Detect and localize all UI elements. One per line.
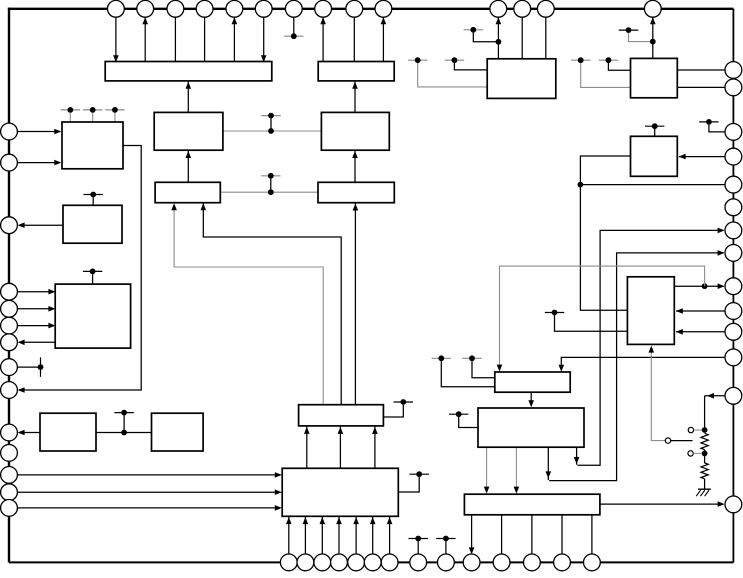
block L2 <box>63 205 122 243</box>
wire pin12 to block E <box>521 17 523 59</box>
wire pin1 to block A <box>115 17 117 61</box>
wire block N to block M <box>187 150 189 182</box>
arrow into pin11 <box>496 17 502 24</box>
pin right 9 <box>725 278 742 295</box>
arrow into block M bottom <box>186 151 192 158</box>
wire block AB to bottom pin10 <box>471 515 473 553</box>
test point TP2 left of pin11 stub <box>464 27 483 33</box>
pin bottom 3 <box>314 554 331 571</box>
arrow into block T in2 <box>275 489 282 495</box>
wire left pin8 to test point TP16 <box>17 366 40 368</box>
wire right pin13 to divider <box>705 395 725 397</box>
wire pin3 to block A <box>174 17 176 61</box>
wire block V to block AB 1 (gray) <box>486 447 488 491</box>
IC boundary top edge <box>8 8 734 10</box>
wire TP26 to block V left <box>459 417 478 428</box>
block A <box>105 62 272 81</box>
wire block A to pin2 <box>144 17 146 61</box>
wire TP6 to block F input 2 <box>581 63 631 87</box>
wire block F to pin14 <box>652 17 654 58</box>
pin top 11 <box>490 0 507 17</box>
test point TP19 <box>410 471 429 477</box>
wire TP24 to block U in2 <box>441 361 495 387</box>
arrow into block T bottom 7 <box>387 517 393 524</box>
arrow into block P bottom <box>649 346 655 353</box>
pin bottom 10 <box>463 554 480 571</box>
pin top 4 <box>196 0 213 17</box>
wire R1 to R2 <box>704 450 706 463</box>
pin bottom 14 <box>584 554 601 571</box>
wire bottom pin1 to block T <box>288 516 290 554</box>
block L1 <box>62 122 123 169</box>
pin right 1 <box>725 62 742 79</box>
test point TP7 <box>599 57 618 63</box>
pin left 1 <box>1 123 18 140</box>
wire block F to right pin1 <box>677 69 725 71</box>
wire junction J1 to right pin5 <box>580 184 725 186</box>
arrow into block D bottom <box>352 151 358 158</box>
wire block AB to right pin14 <box>600 503 724 505</box>
pin right 11 <box>725 323 742 340</box>
wire block T to block S 2 <box>339 426 341 468</box>
block O <box>318 182 394 202</box>
pin left 14 <box>1 500 18 517</box>
wire TP23 to block P left <box>555 315 628 331</box>
pin bottom 9 <box>438 554 455 571</box>
arrow into block AB top 2 <box>514 487 520 494</box>
arrow toward divider corner <box>707 393 714 399</box>
wire pin4 to block A <box>204 17 206 61</box>
test point TP22 above G <box>645 123 664 129</box>
wire TP8 to right pin3 <box>709 125 725 132</box>
switch blade <box>671 440 693 442</box>
pin top 2 <box>137 0 154 17</box>
pin bottom 1 <box>280 554 297 571</box>
wire right pin10 to block P <box>676 310 725 312</box>
stub TP22 to block G <box>654 129 656 136</box>
block B <box>318 62 394 81</box>
arrow into left pin7 <box>18 340 25 346</box>
arrow into block G right <box>679 154 686 160</box>
pin left 6 <box>1 317 18 334</box>
block M <box>154 112 223 150</box>
test point TP14 above L2 <box>84 192 103 198</box>
wire left pin14 to block T <box>17 507 280 509</box>
pin bottom 6 <box>364 554 381 571</box>
wire block M to block A <box>187 81 189 113</box>
test point TP10 <box>261 173 280 179</box>
wire block U to block V <box>530 392 532 406</box>
wire TP4 to block E input 2 <box>418 63 488 87</box>
wire block L2 to left pin3 <box>19 224 63 226</box>
arrow into L3 in2 <box>48 306 55 312</box>
pin left 13 <box>1 484 18 501</box>
stub test point TP9 <box>270 118 272 131</box>
junction on M-D wire <box>268 128 274 134</box>
pin bottom 11 <box>493 554 510 571</box>
pin top 9 <box>346 0 363 17</box>
test point TP20 <box>409 536 428 542</box>
block U <box>495 372 570 392</box>
pin bottom 5 <box>348 554 365 571</box>
pin left 9 <box>1 382 18 399</box>
wire right pin4 to block G <box>679 156 725 158</box>
junction on Q-R wire <box>121 430 127 436</box>
wire pin13 to block E <box>545 17 547 59</box>
wire TP3 to pin14 net <box>629 33 653 42</box>
wire block E to pin11 <box>497 17 499 59</box>
arrow into block T bottom 4 <box>336 517 342 524</box>
stub TP14 to L2 <box>92 197 94 205</box>
arrow into block S bottom 2 <box>338 427 344 434</box>
pin top 7 <box>285 0 302 17</box>
test point TP1 below pin7 <box>284 33 303 39</box>
test point TP5 <box>445 57 464 63</box>
test point TP18 <box>394 399 413 405</box>
arrow into block L1 in2 <box>54 160 61 166</box>
wire block T to block S 3 <box>374 426 376 468</box>
test point TP12 above L1 <box>83 107 102 113</box>
IC boundary right edge <box>732 9 734 563</box>
resistor R2 <box>701 463 708 479</box>
wire block AB to bottom pin11 <box>501 515 503 554</box>
pin bottom 4 <box>331 554 348 571</box>
arrow into block V top <box>528 400 534 407</box>
arrow into block U top 2 <box>559 365 565 372</box>
wire left pin12 to block T <box>17 474 280 476</box>
stub TP13 to L1 <box>114 113 116 122</box>
wire block Q to block R <box>96 432 152 434</box>
wire right pin12 to block U <box>561 357 725 368</box>
wire right pin7 to block V path A <box>578 230 724 465</box>
arrow into block O bottom <box>353 204 359 211</box>
wire TP2 to pin11 net <box>473 33 498 42</box>
pin right 12 <box>725 349 742 366</box>
wire bottom pin3 to block T <box>321 516 323 554</box>
wire bottom pin7 to block T <box>389 516 391 554</box>
switch contact lower <box>688 451 693 456</box>
wire block U net to J2 (gray) <box>500 266 705 366</box>
resistor R1 <box>701 433 708 449</box>
wire block V down leg B <box>547 447 549 480</box>
arrow down on V leg B <box>546 471 552 478</box>
switch contact upper <box>688 427 693 432</box>
pin top 8 <box>315 0 332 17</box>
test point TP15 above L3 <box>83 269 102 275</box>
pin left 7 <box>1 334 18 351</box>
arrow into pin2 <box>142 17 148 24</box>
stub TP12 to L1 <box>92 113 94 122</box>
pin right 5 <box>725 176 742 193</box>
arrow into L3 in3 <box>48 323 55 329</box>
arrow into pin10 <box>381 17 387 24</box>
wire block L3 to left pin7 <box>19 341 55 343</box>
pin right 6 <box>725 199 742 216</box>
pin right 14 <box>725 496 742 513</box>
test point TP23 <box>545 310 564 316</box>
pin top 6 <box>255 0 272 17</box>
pin bottom 2 <box>297 554 314 571</box>
pin right 13 <box>725 387 742 404</box>
wire block A to pin5 <box>233 17 235 61</box>
arrow into block T bottom 1 <box>286 517 292 524</box>
pin bottom 8 <box>410 554 427 571</box>
wire left pin4 to block L3 <box>17 291 54 293</box>
pin top 3 <box>167 0 184 17</box>
pin right 3 <box>725 123 742 140</box>
block F <box>631 58 678 97</box>
arrow into block P right 1 <box>676 308 683 314</box>
pin right 8 <box>725 245 742 262</box>
wire TP25 to block U in1 <box>472 361 495 378</box>
arrow into pin8 <box>320 17 326 24</box>
arrow into L3 in1 <box>48 289 55 295</box>
wire right pin8 to block V path B <box>549 253 723 481</box>
block AB <box>464 494 600 515</box>
arrow into right pin7 <box>718 228 725 234</box>
switch common contact <box>665 438 670 443</box>
arrow into block A bottom <box>186 82 192 89</box>
test point TP13 above L1 <box>105 107 124 113</box>
block V <box>478 408 584 447</box>
arrow into block T in3 <box>275 505 282 511</box>
junction J3 divider top <box>702 427 708 433</box>
wire left pin6 to block L3 <box>17 325 54 327</box>
IC boundary bottom edge <box>9 561 733 563</box>
wire block O to block D <box>354 150 356 182</box>
wire contact upper to J3 <box>694 429 702 431</box>
wire block T to test point TP19 <box>398 477 419 492</box>
test point TP9 <box>261 113 280 119</box>
arrow into block T bottom 6 <box>370 517 376 524</box>
test point TP11 above L1 <box>61 107 80 113</box>
arrow into right pin9 <box>718 283 725 289</box>
pin top 10 <box>375 0 392 17</box>
junction on N-O wire <box>268 189 274 195</box>
wire block B to pin10 <box>382 17 384 61</box>
arrow into block T bottom 5 <box>353 517 359 524</box>
pin top 1 <box>108 0 125 17</box>
junction J4 divider mid <box>702 451 708 457</box>
wire block V to block AB 2 (gray) <box>515 447 517 491</box>
pin left 11 <box>1 445 18 462</box>
arrow into block N bottom left <box>171 203 177 210</box>
block P <box>627 277 674 345</box>
wire divider top leg <box>704 396 706 430</box>
arrow into bottom pin10 <box>469 547 475 554</box>
stub test point TP17 <box>123 415 125 432</box>
block T <box>282 468 398 516</box>
arrow into block T bottom 3 <box>320 517 326 524</box>
wire block AB to bottom pin13 <box>561 515 563 554</box>
pin right 10 <box>725 303 742 320</box>
arrow into block T in1 <box>275 472 282 478</box>
wire block V down leg A <box>576 447 578 465</box>
pin bottom 7 <box>381 554 398 571</box>
wire block P to switch pole (gray) <box>651 349 665 441</box>
junction J1 on G-P net <box>578 182 584 188</box>
IC boundary left edge <box>8 8 10 563</box>
wire pin6 to block A <box>263 17 265 61</box>
arrow into block P right 2 <box>676 329 683 335</box>
wire bottom pin5 to block T <box>355 516 357 554</box>
arrow down on V leg A <box>574 457 580 464</box>
arrow into right pin14 <box>718 501 725 507</box>
wire bottom pin2 to block T <box>304 516 306 554</box>
arrow into block A top <box>113 55 119 62</box>
pin top 12 <box>514 0 531 17</box>
stub TP11 to L1 <box>69 113 71 122</box>
arrow into pin5 <box>232 17 238 24</box>
pin left 5 <box>1 300 18 317</box>
stub pin7 to test point <box>293 17 295 36</box>
wire left pin2 to block L1 <box>17 162 60 164</box>
wire TP5 to block E input 1 <box>454 63 487 70</box>
test point TP26 <box>449 411 468 417</box>
arrow into block S bottom 1 <box>304 427 310 434</box>
pin top 14 <box>644 0 661 17</box>
wire left pin1 to block L1 <box>17 131 60 133</box>
wire pin9 to block B <box>353 17 355 61</box>
ground symbol <box>696 489 711 496</box>
wire block L1 out to left pin9 <box>19 146 141 391</box>
pin right 7 <box>725 222 742 239</box>
arrow into block B bottom <box>352 82 358 89</box>
wire block G to block P via junction <box>580 156 630 310</box>
junction J2 on P-pin9 net <box>702 283 708 289</box>
pin left 10 <box>1 424 18 441</box>
arrow into right pin8 <box>718 250 725 256</box>
wire block B to pin8 <box>322 17 324 61</box>
wire block Q to left pin10 <box>19 432 40 434</box>
arrow into block N bottom right <box>201 203 207 210</box>
wire bottom pin6 to block T <box>372 516 374 554</box>
wire R2 to ground <box>704 479 706 489</box>
test point TP17 <box>114 410 133 416</box>
test point TP25 <box>462 355 481 361</box>
block S <box>299 405 384 426</box>
block D <box>321 112 389 150</box>
block R <box>152 413 204 451</box>
stub TP20 to bottom pin8 <box>417 541 419 554</box>
pin right 2 <box>725 79 742 96</box>
wire TP7 to block F input 1 <box>608 63 630 70</box>
test point TP6 <box>571 57 590 63</box>
pin left 2 <box>1 154 18 171</box>
wire block F to right pin2 <box>677 86 725 88</box>
arrow into block A top right <box>261 55 267 62</box>
arrow into block U top <box>497 365 503 372</box>
wire block AB to bottom pin12 <box>531 515 533 554</box>
arrow into left pin9 <box>18 387 25 393</box>
wire left pin13 to block T <box>17 491 280 493</box>
wire contact lower to J4 <box>693 452 702 454</box>
arrow into pin14 <box>650 17 656 24</box>
test point TP24 <box>432 355 451 361</box>
pin left 4 <box>1 283 18 300</box>
stub TP21 to bottom pin9 <box>445 541 447 554</box>
wire left pin5 to block L3 <box>17 308 54 310</box>
arrow into left pin10 <box>18 430 25 436</box>
wire block P to right pin9 <box>674 285 723 287</box>
wire right pin11 to block P <box>676 331 725 333</box>
wire block M to block D <box>223 130 322 132</box>
wire block AB to bottom pin14 <box>591 515 593 554</box>
pin bottom 12 <box>524 554 541 571</box>
pin left 12 <box>1 467 18 484</box>
stub TP15 to L3 <box>92 274 94 284</box>
wire block O bottom to block S <box>354 204 356 405</box>
arrow into block L1 in1 <box>54 129 61 135</box>
pin left 8 <box>1 359 18 376</box>
arrow into left pin3 <box>18 222 25 228</box>
arrow into block AB top 1 <box>484 487 490 494</box>
test point TP16 <box>38 357 44 376</box>
block G <box>631 136 678 176</box>
test point TP8 <box>699 119 718 125</box>
wire block D to block B <box>354 81 356 113</box>
pin top 13 <box>537 0 554 17</box>
test point TP4 <box>408 57 427 63</box>
pin bottom 13 <box>554 554 571 571</box>
wire to block N bottom <box>203 203 341 404</box>
block L3 <box>55 284 130 348</box>
arrow into block S bottom 3 <box>372 427 378 434</box>
pin right 4 <box>725 148 742 165</box>
wire block S to test point TP18 <box>383 405 403 417</box>
block E <box>487 59 556 99</box>
stub test point TP10 <box>270 179 272 193</box>
test point TP3 left of pin14 stub <box>619 27 638 33</box>
wire bottom pin4 to block T <box>338 516 340 554</box>
arrow into block T bottom 2 <box>303 517 309 524</box>
wire block N to block O <box>220 191 318 193</box>
block Q <box>40 413 96 451</box>
pin top 5 <box>226 0 243 17</box>
pin left 3 <box>1 217 18 234</box>
block N <box>155 182 220 202</box>
test point TP21 <box>436 536 455 542</box>
junction on pin11 net <box>496 39 502 45</box>
wire block T to block S 1 <box>306 426 308 468</box>
junction on pin14 net <box>650 39 656 45</box>
wire block S to block N (gray) <box>174 207 323 405</box>
